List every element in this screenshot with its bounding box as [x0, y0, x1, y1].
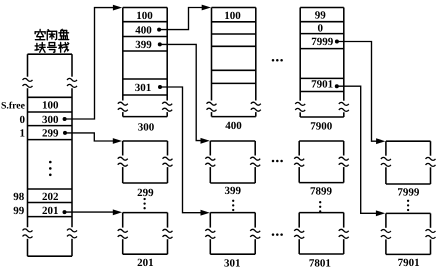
svg-text:201: 201	[42, 205, 59, 217]
ellipsis between 399 and 301	[232, 200, 234, 212]
svg-text:201: 201	[137, 257, 154, 268]
disk block 7801	[294, 213, 349, 254]
svg-text:7801: 7801	[309, 257, 331, 268]
title line 1: 空闲盘	[35, 29, 69, 40]
svg-text:400: 400	[225, 120, 242, 132]
svg-text:299: 299	[137, 187, 154, 199]
wire: stack[99]=201 to block 201	[63, 209, 123, 215]
wire: 300.top=400 to block 400	[159, 5, 211, 30]
svg-text:7900: 7900	[310, 120, 333, 132]
wire: stack[0]=300 to block 300	[63, 5, 123, 121]
svg-text:399: 399	[225, 185, 242, 197]
wire: 7900[7901] to block 7901	[337, 86, 385, 216]
svg-text:301: 301	[224, 258, 241, 268]
label 7899	[310, 185, 333, 197]
svg-text:0: 0	[20, 114, 26, 126]
svg-text:7901: 7901	[398, 257, 420, 268]
disk block 201	[118, 213, 173, 255]
disk block 400 table	[207, 8, 261, 117]
svg-text:1: 1	[20, 128, 26, 140]
disk block 399	[205, 141, 260, 183]
disk block 7899	[294, 141, 349, 183]
ellipsis between 7899 and 7801	[319, 201, 321, 213]
svg-text:399: 399	[135, 39, 152, 51]
ellipsis between 399 and 7899	[272, 160, 283, 163]
label 399	[225, 185, 242, 197]
label 201	[137, 257, 154, 268]
disk block 7901	[381, 213, 436, 254]
wire: 300[399] to block 399	[160, 44, 210, 143]
svg-text:100: 100	[136, 10, 153, 22]
stack row labels	[1, 101, 26, 217]
svg-text:S.free: S.free	[1, 101, 26, 112]
svg-text:98: 98	[13, 191, 25, 203]
label 301	[224, 258, 241, 268]
label 7801	[309, 257, 331, 268]
svg-text:100: 100	[224, 10, 241, 22]
svg-text:7899: 7899	[310, 185, 333, 197]
ellipsis between 299 and 201	[143, 198, 145, 210]
svg-text:400: 400	[135, 25, 152, 37]
label 299	[137, 187, 154, 199]
disk block 301	[205, 213, 260, 255]
svg-text:7999: 7999	[311, 36, 334, 48]
svg-text:202: 202	[42, 191, 59, 203]
svg-text:301: 301	[135, 82, 152, 94]
disk block 299	[118, 141, 173, 183]
ellipsis between 7999 and 7901	[407, 200, 409, 212]
svg-text:299: 299	[42, 128, 59, 140]
wire: 7900[7999] to block 7999	[337, 42, 386, 145]
label 300	[138, 122, 155, 134]
svg-text:99: 99	[13, 205, 25, 217]
svg-text:100: 100	[42, 100, 59, 112]
label 400	[225, 120, 242, 132]
svg-text:7901: 7901	[311, 78, 333, 90]
svg-text:7999: 7999	[397, 187, 420, 199]
stack ellipsis	[49, 161, 52, 176]
stack cell values	[42, 100, 59, 217]
wire: stack[1]=299 to block 299	[63, 131, 122, 144]
svg-text:0: 0	[317, 22, 323, 34]
svg-text:300: 300	[42, 114, 59, 126]
title line 2: 块号栈	[35, 42, 69, 52]
label 7901	[398, 257, 420, 268]
free-block-number stack table	[23, 54, 78, 256]
disk block 7900 table	[295, 8, 349, 118]
ellipsis between 400 and 7900	[272, 59, 283, 62]
wire: 300[301] to block 301	[160, 87, 210, 216]
disk block 7999	[381, 141, 436, 184]
label 7999	[397, 187, 420, 199]
svg-text:99: 99	[315, 10, 327, 22]
svg-text:300: 300	[138, 122, 155, 134]
ellipsis between 301 and 7801	[272, 233, 283, 236]
label 7900	[310, 120, 333, 132]
disk block 300 table	[118, 8, 172, 117]
